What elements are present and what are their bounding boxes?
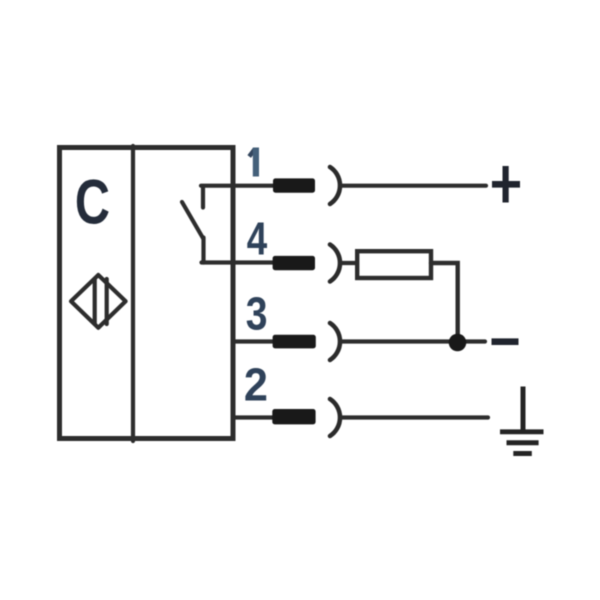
capacitive sensor symbol: diamond [71, 275, 126, 328]
sensor body outline [60, 148, 234, 439]
wire: resistor to junction on line 3 [431, 263, 458, 338]
pin 4 contact bar [273, 256, 315, 270]
pin 2 contact bar [272, 409, 315, 424]
switch: fixed contact stub from pin-1 line [201, 186, 205, 208]
ground symbol: middle bar [507, 440, 539, 445]
svg-text:4: 4 [247, 213, 267, 265]
wire: pin 4 line from switch bottom through box edge to connector [202, 260, 276, 264]
plus terminal [492, 181, 520, 188]
wire: line 1 to plus terminal [340, 184, 486, 188]
ground symbol: vertical stem [521, 387, 526, 433]
ground symbol: bottom bar [513, 451, 532, 456]
wire: line 2 to ground [341, 415, 488, 419]
minus terminal [492, 338, 519, 345]
capacitor plate left [93, 279, 97, 324]
pin label 1 (stem) [253, 148, 259, 177]
connector socket arc, line 1 [330, 167, 340, 204]
svg-text:3: 3 [246, 289, 268, 341]
junction dot [449, 334, 467, 352]
wire: line 3 to minus terminal [340, 339, 485, 343]
divider line [131, 146, 135, 441]
capacitor plate right [105, 279, 109, 324]
wire: pin 2 line from box edge to connector [233, 415, 275, 419]
switch: moving blade (normally open) [182, 202, 204, 239]
wire: pin 1 line from switch through box edge to connector [201, 184, 275, 188]
connector socket arc, line 3 [330, 323, 340, 360]
pin 1 contact bar [273, 178, 315, 192]
switch: lower vertical to pin-4 line [201, 238, 205, 263]
connector socket arc, line 4 [330, 245, 340, 282]
wire: pin 3 line from box edge to connector [233, 339, 275, 343]
pin 3 contact bar [273, 335, 316, 349]
wire: line 4 arc to resistor [340, 261, 356, 265]
resistor R [357, 251, 431, 278]
ground symbol: top bar [500, 429, 544, 434]
svg-text:C: C [75, 166, 110, 237]
svg-text:2: 2 [244, 360, 268, 410]
pin label 1 (flag) [249, 149, 254, 156]
connector socket arc, line 2 [330, 399, 340, 436]
